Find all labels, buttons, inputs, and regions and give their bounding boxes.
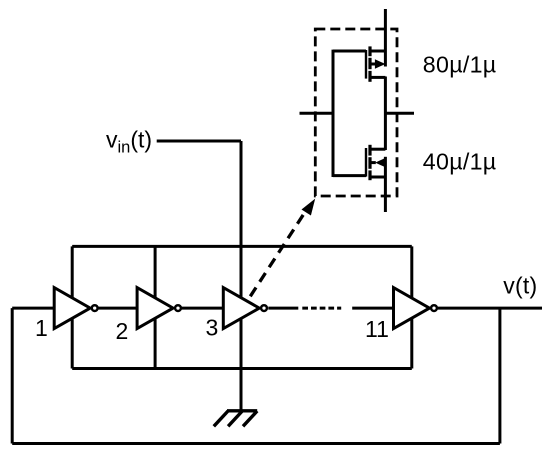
wire output rail between transistors (384, 77, 387, 151)
wire gate bus (332, 50, 335, 177)
wire output v(t) (438, 307, 542, 310)
ground (214, 411, 257, 427)
inverter U11 bubble (431, 305, 437, 311)
wire vin horizontal (157, 140, 241, 143)
wire inverter 2 to inverter 3 (181, 307, 223, 310)
wire inverter 11 supply line (410, 246, 413, 368)
wire NMOS source to ground rail (370, 176, 385, 179)
dashed pointer line from inverter 3 to inset (250, 212, 305, 296)
wire PMOS gate wire (333, 50, 366, 53)
wire inverter 3 output (268, 307, 298, 310)
wire feedback right vertical (498, 308, 501, 443)
wire input stub (300, 112, 334, 115)
wire inverter 1 to inverter 2 (99, 307, 138, 310)
dashed box around CMOS inverter detail (315, 29, 397, 196)
svg-text:1: 1 (35, 315, 48, 341)
inverter U1 bubble (92, 305, 98, 311)
wire NMOS gate wire (333, 174, 366, 177)
wire dotted continuation (302, 307, 341, 310)
inverter U3 bubble (261, 305, 267, 311)
PMOS bulk arrow (370, 63, 377, 66)
wire output stub (385, 112, 414, 115)
svg-text:80µ/1µ: 80µ/1µ (423, 52, 497, 78)
NMOS bulk arrow (370, 161, 376, 164)
wire into inverter 11 (352, 307, 393, 310)
wire ground rail below inset (384, 157, 387, 212)
NMOS channel segments (368, 145, 371, 180)
inverter U11 triangle (394, 288, 430, 329)
svg-text:11: 11 (365, 316, 389, 342)
wire VDD rail above inset (384, 9, 387, 67)
wire inverter 1 supply line (71, 246, 74, 368)
svg-text:40µ/1µ: 40µ/1µ (423, 149, 497, 175)
svg-text:2: 2 (116, 318, 129, 344)
inverter U1 triangle (54, 288, 90, 329)
svg-text:v(t): v(t) (503, 273, 537, 299)
wire vin vertical down through inverter 3 to ground (240, 141, 243, 411)
wire PMOS drain (370, 76, 385, 79)
wire feedback left vertical (11, 308, 14, 443)
wire NMOS drain (370, 148, 385, 151)
transistor M2 NMOS (333, 145, 386, 180)
PMOS gate bar (365, 50, 367, 79)
inverter U3 triangle (223, 288, 259, 329)
wire feedback bottom (12, 442, 500, 445)
wire inverter 2 supply line (154, 246, 157, 368)
wire PMOS source to VDD (370, 50, 385, 53)
wire feedback into inverter 1 (12, 307, 54, 310)
NMOS gate bar (365, 148, 367, 177)
inverter U2 bubble (175, 305, 181, 311)
wire top supply bus (72, 245, 412, 248)
svg-text:vin(t): vin(t) (106, 127, 152, 157)
pointer arrowhead (302, 199, 316, 216)
transistor M1 PMOS (333, 46, 385, 81)
svg-text:3: 3 (206, 315, 219, 341)
inverter U2 triangle (137, 288, 173, 329)
PMOS channel segments (368, 46, 371, 81)
wire bottom supply bus (72, 367, 412, 370)
